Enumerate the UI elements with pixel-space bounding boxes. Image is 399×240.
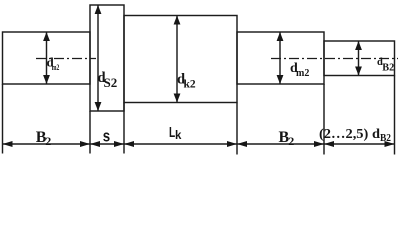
svg-text:k2: k2 <box>184 79 196 91</box>
arrowhead Lk left <box>124 141 134 147</box>
svg-text:s: s <box>103 126 110 145</box>
extension line at x=124 <box>123 103 125 154</box>
arrowhead dm2r bottom <box>277 75 284 84</box>
arrowhead B2 left-right <box>80 141 90 147</box>
diameter arrow dk2 shaft <box>176 16 178 103</box>
svg-text:(2…2,5) d: (2…2,5) d <box>319 127 380 142</box>
arrowhead end-right <box>385 141 395 147</box>
extension line at x=90 <box>89 111 91 154</box>
dimension line B2 right <box>237 143 324 145</box>
dimension line B2 left <box>3 143 91 145</box>
extension line at x=237 <box>236 103 238 155</box>
svg-text:m2: m2 <box>296 68 309 79</box>
shaft section 4 (right bearing seat, diameter dm2) <box>237 32 324 84</box>
arrowhead dm2 bottom <box>43 75 50 84</box>
arrowhead dB2 bottom <box>355 67 362 76</box>
arrowhead B2 left-left <box>3 141 13 147</box>
diameter arrow dm2 left shaft <box>46 32 48 84</box>
diameter arrow dS2 shaft <box>97 5 99 111</box>
extension line at x=324 <box>323 84 325 155</box>
shaft section 5 (shaft end, diameter dB2) <box>324 41 395 76</box>
arrowhead s right <box>114 141 124 147</box>
arrowhead s left <box>90 141 100 147</box>
dimension line Lk <box>124 143 237 145</box>
dimension line s <box>90 143 124 145</box>
arrowhead dS2 bottom <box>95 102 102 111</box>
shaft section 2 (shoulder collar, diameter dS2) <box>90 5 124 111</box>
shaft section 3 (wheel seat, diameter dk2) <box>124 16 237 103</box>
svg-text:S2: S2 <box>104 75 118 90</box>
arrowhead dS2 top <box>95 5 102 14</box>
svg-text:B2: B2 <box>380 133 391 144</box>
svg-text:2: 2 <box>288 134 294 148</box>
arrowhead dm2r top <box>277 32 284 41</box>
arrowhead dB2 top <box>355 41 362 50</box>
arrowhead dk2 top <box>174 16 181 25</box>
svg-text:B2: B2 <box>382 63 394 74</box>
arrowhead dm2 top <box>43 32 50 41</box>
shaft section 1 (left bearing seat, diameter dm2) <box>3 32 91 84</box>
centerline left segment <box>36 58 96 60</box>
svg-text:k: k <box>175 130 182 142</box>
svg-text:2: 2 <box>45 134 51 148</box>
arrowhead dk2 bottom <box>174 94 181 103</box>
arrowhead end-left <box>324 141 334 147</box>
extension line at x=394.5 <box>394 76 396 155</box>
centerline right segment <box>271 58 398 60</box>
extension line at x=2.5 <box>2 84 4 154</box>
svg-text:m2: m2 <box>52 62 60 72</box>
arrowhead Lk right <box>227 141 237 147</box>
arrowhead B2 right-left <box>237 141 247 147</box>
arrowhead B2 right-right <box>314 141 324 147</box>
diameter arrow dm2 right shaft <box>279 32 281 84</box>
diameter arrow dB2 shaft <box>358 41 360 76</box>
dimension line shaft end length <box>324 143 395 145</box>
